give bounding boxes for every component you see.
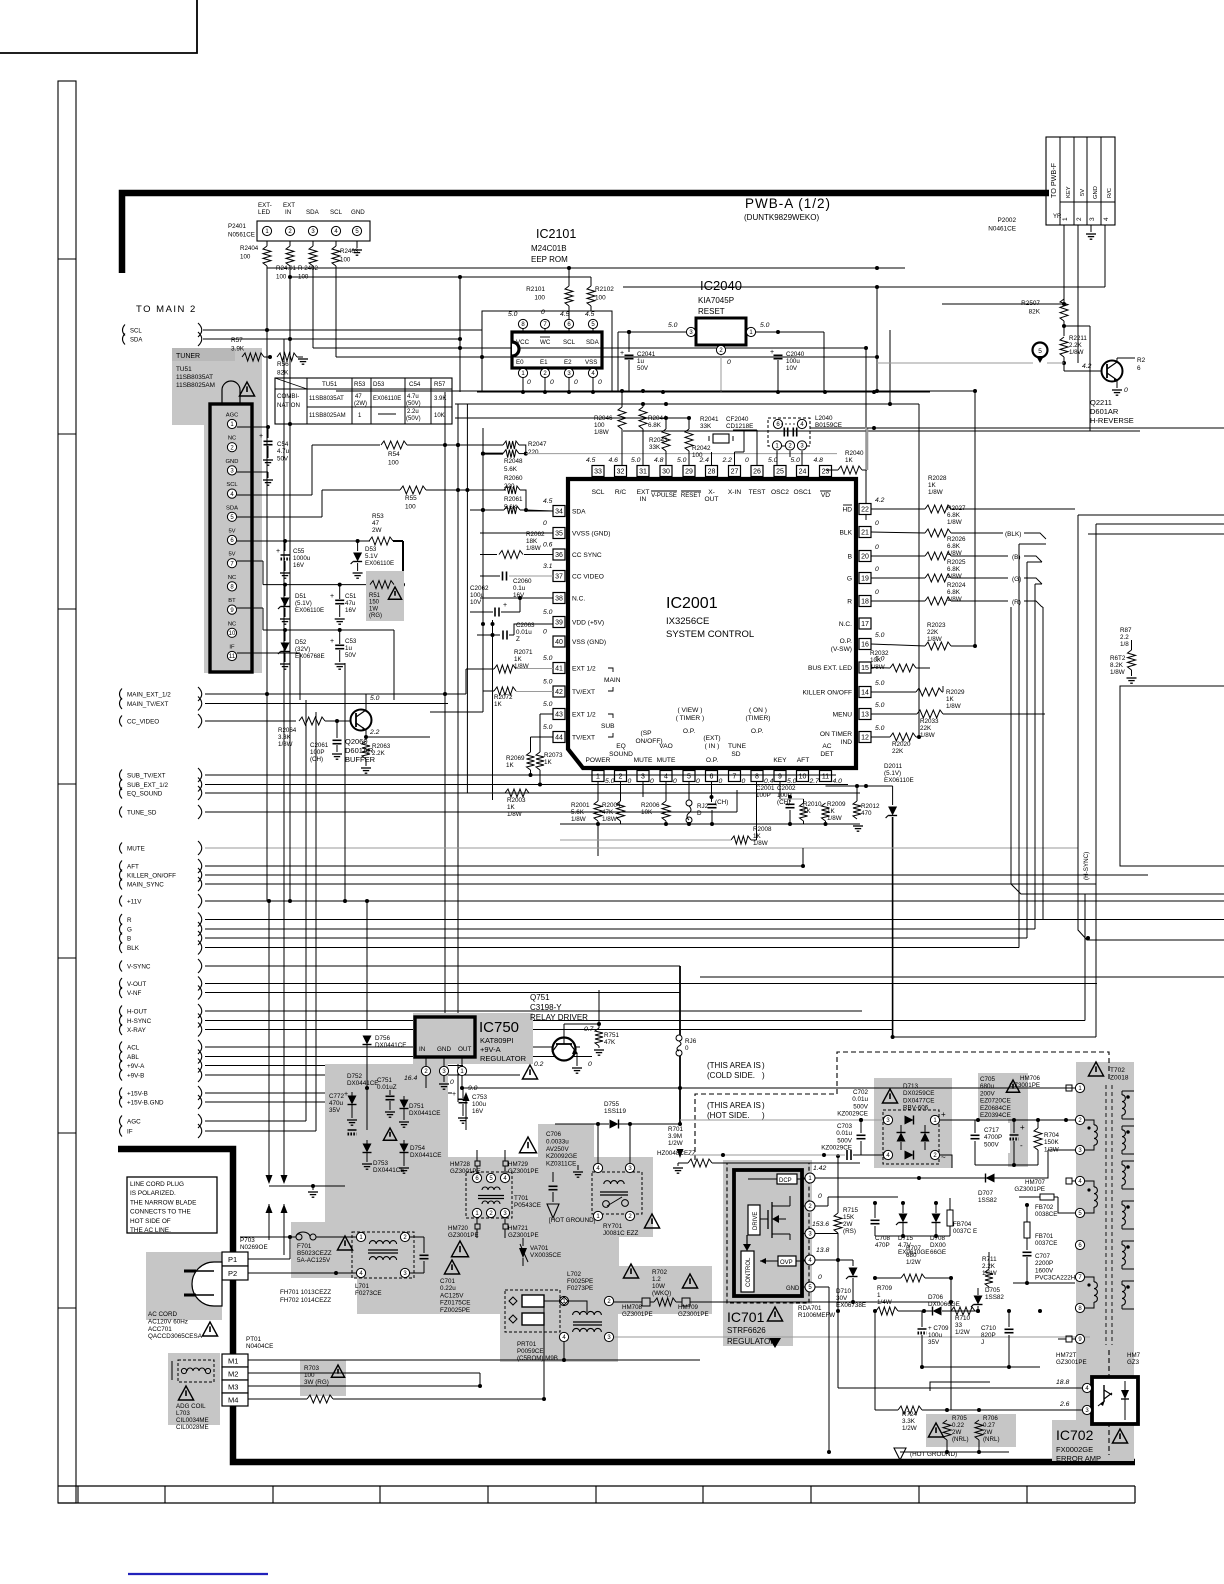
resistor R702 1.2 10W (WKQ) (652, 1269, 698, 1297)
transistor Q2060 D601AR BUFFER (351, 695, 380, 739)
wire SCL bus (203, 328, 482, 332)
svg-text:EQ: EQ (616, 743, 626, 750)
IC2101 top pins 8 7 6 5 (518, 319, 597, 332)
svg-text:ON TIMER: ON TIMER (820, 731, 852, 738)
svg-text:0.4: 0.4 (764, 778, 774, 785)
svg-text:(RG): (RG) (369, 613, 382, 619)
resistor R2047 220 (503, 441, 547, 456)
svg-text:HD: HD (842, 507, 852, 514)
svg-text:CONNECTS TO THE: CONNECTS TO THE (130, 1209, 191, 1216)
svg-text:( IN ): ( IN ) (705, 743, 720, 750)
svg-text:E2: E2 (564, 359, 572, 366)
svg-text:V-SYNC: V-SYNC (127, 963, 151, 970)
svg-text:TO MAIN 2: TO MAIN 2 (136, 304, 197, 315)
svg-text:1/2W: 1/2W (668, 1140, 683, 1147)
jumper RJ6 0 (676, 1035, 697, 1056)
svg-text:100u: 100u (470, 592, 485, 599)
svg-text:[HOT GROUND]: [HOT GROUND] (549, 1217, 596, 1224)
svg-text:TUNER: TUNER (176, 353, 200, 360)
svg-text:0.01u: 0.01u (852, 1096, 868, 1103)
svg-text:10K: 10K (870, 657, 882, 664)
svg-text:28: 28 (708, 469, 716, 476)
svg-text:HM709: HM709 (678, 1304, 699, 1311)
svg-text:150K: 150K (1044, 1139, 1060, 1146)
svg-text:2W: 2W (952, 1429, 961, 1436)
svg-text:MUTE: MUTE (634, 757, 653, 764)
svg-text:11SB8025AM: 11SB8025AM (309, 413, 346, 419)
svg-text:VX0035CE: VX0035CE (530, 1252, 561, 1259)
line cord plug text box (127, 1177, 217, 1234)
svg-text:5.0: 5.0 (631, 457, 641, 464)
svg-text:37: 37 (555, 574, 563, 581)
resistor R707 680 1/2W (873, 1245, 953, 1282)
svg-text:HM72T: HM72T (1056, 1352, 1077, 1359)
svg-text:0.2: 0.2 (534, 1061, 544, 1068)
gray zone C705 (978, 1073, 1028, 1119)
IC701 internals DRIVE block (748, 1205, 760, 1235)
capacitor C2041 1u 50V (620, 330, 656, 392)
resistor R705 0.22 2W (NRL) (943, 1410, 969, 1454)
svg-text:RDA701: RDA701 (798, 1305, 822, 1312)
wire +11V junction to D756 (365, 899, 369, 1030)
svg-text:5.6K: 5.6K (504, 466, 518, 473)
svg-text:100: 100 (405, 504, 416, 511)
svg-text:R54: R54 (388, 451, 400, 458)
svg-text:R2507: R2507 (1021, 300, 1040, 307)
svg-text:100: 100 (276, 273, 287, 280)
svg-text:FH702 1014CEZZ: FH702 1014CEZZ (280, 1297, 331, 1304)
bead FB704 0037CE (947, 1198, 977, 1236)
PWB-A board outline: thick bottom border (118, 1149, 1135, 1462)
zener D53 5.1V EX06110E (351, 541, 395, 578)
svg-text:100u: 100u (786, 358, 800, 365)
svg-text:O.P.: O.P. (706, 757, 719, 764)
svg-text:GZ3001PE: GZ3001PE (1014, 1186, 1045, 1193)
svg-text:MAIN_SYNC: MAIN_SYNC (127, 881, 164, 888)
svg-text:680u: 680u (980, 1083, 995, 1090)
svg-text:V-OUT: V-OUT (127, 981, 146, 988)
svg-text:AC125V: AC125V (440, 1292, 464, 1299)
svg-text:KZ0092GE: KZ0092GE (546, 1153, 577, 1160)
svg-text:43: 43 (555, 712, 563, 719)
svg-text:GZ3001PE: GZ3001PE (622, 1311, 653, 1318)
wire pin2 pin3 jogs (621, 782, 667, 824)
svg-text:M1: M1 (228, 1357, 238, 1366)
wire TUNE_SD up to pin8 (736, 790, 738, 812)
svg-text:EX06110E: EX06110E (884, 777, 914, 784)
svg-text:R2023: R2023 (927, 622, 946, 629)
svg-text:R2029: R2029 (946, 689, 965, 696)
wire IC2001 left pin stubs (480, 511, 553, 598)
svg-text:R2033: R2033 (920, 718, 939, 725)
resistor R2211 2.2K 1/8W (1060, 335, 1087, 365)
svg-text:HZ0048CEZZ: HZ0048CEZZ (657, 1150, 696, 1157)
IC750 label (479, 1019, 527, 1063)
wire bus above IC2001 y418 (455, 416, 691, 420)
connector P1 P2 boxes (222, 1252, 248, 1280)
svg-text:TO PWB-F: TO PWB-F (1049, 162, 1058, 198)
svg-text:1/8W: 1/8W (947, 573, 962, 580)
svg-text:EZ0394CE: EZ0394CE (980, 1112, 1011, 1119)
svg-text:R2101: R2101 (526, 286, 545, 293)
svg-text:5V: 5V (228, 529, 235, 535)
svg-text:LINE CORD PLUG: LINE CORD PLUG (130, 1181, 184, 1188)
svg-text:IF: IF (127, 1128, 133, 1135)
svg-text:16V: 16V (345, 607, 357, 614)
svg-text:DX0441CE: DX0441CE (410, 1152, 442, 1159)
wire rail y1367 (922, 1309, 1042, 1367)
svg-text:1: 1 (1062, 217, 1069, 221)
svg-text:IN: IN (419, 1046, 426, 1053)
svg-text:1/8W: 1/8W (946, 703, 961, 710)
svg-text:100P: 100P (310, 749, 324, 756)
svg-text:R/C: R/C (615, 489, 627, 496)
svg-text:22K: 22K (892, 748, 904, 755)
resistor R2402 100 (298, 241, 319, 348)
svg-text:22: 22 (861, 507, 869, 514)
svg-text:100: 100 (340, 256, 351, 263)
wire nested route 4 box (1088, 533, 1224, 535)
svg-text:(EXT): (EXT) (703, 735, 720, 742)
wire R vertical to stub (1042, 607, 1043, 920)
svg-text:6.8K: 6.8K (947, 543, 961, 550)
svg-text:+: + (276, 548, 280, 555)
svg-text:5A-AC125V: 5A-AC125V (297, 1257, 331, 1264)
svg-text:SCL: SCL (130, 328, 142, 334)
svg-text:): ) (762, 1111, 765, 1120)
svg-text:VSS: VSS (585, 359, 597, 366)
svg-text:GND: GND (226, 459, 239, 465)
wire IC702 pin3 line (930, 1382, 1082, 1410)
relay RY701 J0081C EZZ (592, 1163, 660, 1237)
svg-text:O.P.: O.P. (683, 728, 696, 735)
svg-text:IC701: IC701 (727, 1309, 765, 1325)
svg-text:X-IN: X-IN (728, 489, 741, 496)
svg-text:39: 39 (555, 620, 563, 627)
T702 primary winding 2-3 (1085, 1120, 1097, 1150)
wire vertical bus arrows resume (266, 1204, 288, 1255)
svg-text:VSS (GND): VSS (GND) (572, 639, 606, 646)
svg-text:1/8W: 1/8W (947, 596, 962, 603)
svg-text:D753: D753 (373, 1160, 389, 1167)
gray zone PRT01 label (500, 1290, 618, 1362)
svg-text:1/8W: 1/8W (947, 519, 962, 526)
svg-text:TU51: TU51 (322, 381, 338, 388)
node +15V-B brace and wire (120, 1086, 453, 1100)
svg-text:0: 0 (875, 544, 879, 551)
wire M4 long (543, 1311, 545, 1399)
svg-text:EEP ROM: EEP ROM (531, 255, 568, 264)
svg-text:P2401: P2401 (228, 223, 246, 230)
svg-text:R1006MEFW: R1006MEFW (798, 1312, 835, 1319)
svg-text:QACCD3065CESA: QACCD3065CESA (148, 1333, 203, 1340)
IC2001 right pin squares 22-12 (859, 504, 871, 743)
svg-text:5.0: 5.0 (370, 695, 380, 702)
svg-text:4.7u: 4.7u (407, 394, 419, 400)
wire nested route 2 (1078, 515, 1224, 940)
svg-text:MENU: MENU (833, 712, 853, 719)
svg-text:0: 0 (875, 589, 879, 596)
wire IC701 pin3 right (815, 1233, 838, 1235)
resistor R57 3.9K (205, 337, 272, 361)
HM72x label right (1127, 1352, 1141, 1366)
svg-text:(THIS AREA IS: (THIS AREA IS (707, 1101, 761, 1110)
svg-text:R751: R751 (604, 1032, 620, 1039)
svg-text:IS POLARIZED.: IS POLARIZED. (130, 1190, 176, 1197)
svg-text:CIL0034ME: CIL0034ME (176, 1417, 209, 1424)
svg-text:N0269OE: N0269OE (240, 1244, 268, 1251)
svg-text:47K: 47K (604, 1039, 616, 1046)
svg-text:VCC: VCC (516, 339, 530, 346)
svg-text:KAT809PI: KAT809PI (480, 1036, 514, 1045)
hot/cold dashed boundary (695, 1052, 1109, 1455)
R702 inline HM708 HM709 (614, 1298, 940, 1318)
svg-text:FZ0025PE: FZ0025PE (440, 1307, 470, 1314)
svg-text:AC120V 60Hz: AC120V 60Hz (148, 1318, 188, 1325)
wire vertical bus x269 down lower (266, 899, 273, 1184)
svg-text:SUB_EXT_1/2: SUB_EXT_1/2 (127, 782, 168, 789)
svg-text:470u: 470u (329, 1100, 344, 1107)
wire nested route 3 (893, 524, 1224, 1037)
svg-text:47: 47 (355, 394, 362, 400)
svg-text:(WKQ): (WKQ) (652, 1290, 671, 1297)
svg-text:STRF6626: STRF6626 (727, 1326, 766, 1335)
IC701 STRF6626 body (734, 1170, 802, 1296)
svg-text:200V: 200V (980, 1090, 996, 1097)
resistor R2064 3.3K 1/8W (278, 717, 351, 748)
wire IC2101 bottom rail (477, 390, 930, 394)
page frame: blue underline mark bottom left (128, 1573, 268, 1575)
svg-text:100: 100 (594, 422, 605, 429)
resistor R2008 1K 1/8W (560, 782, 772, 847)
diode D707 1SS82 (919, 1170, 1019, 1204)
node MAIN_EXT_1/2 brace and wire (120, 687, 467, 701)
svg-text:BUFFER: BUFFER (345, 755, 376, 764)
wire AGC vertical (305, 700, 307, 1121)
svg-text:38: 38 (555, 596, 563, 603)
svg-text:EZ0684CE: EZ0684CE (980, 1105, 1011, 1112)
svg-text:10V: 10V (470, 599, 482, 606)
svg-text:1K: 1K (845, 457, 854, 464)
wire pin11 ACDET to D2011 (826, 782, 893, 791)
svg-text:R2: R2 (1137, 357, 1146, 364)
hot ground label (549, 1217, 596, 1224)
svg-text:TUNE: TUNE (728, 743, 747, 750)
wire box around IC2101 (482, 311, 612, 392)
wire Q2060 collector net (366, 694, 540, 703)
wire BLK vertical to stub (1019, 544, 1046, 948)
resistor R706 0.27 2W (NRL) (975, 1410, 1000, 1454)
svg-text:0: 0 (574, 379, 578, 386)
svg-text:1/8W: 1/8W (1110, 669, 1125, 676)
IC2001 left pin labels (572, 509, 621, 742)
warning R705 (928, 1423, 943, 1437)
svg-text:0: 0 (745, 457, 749, 464)
FH701 FH702 label (280, 1289, 331, 1304)
svg-text:TEST: TEST (749, 489, 766, 496)
capacitor C751 0.01uZ (377, 1077, 397, 1117)
IC750 pins 2 3 1 (421, 1057, 466, 1090)
svg-text:R2102: R2102 (595, 286, 614, 293)
svg-text:R715: R715 (843, 1207, 859, 1214)
svg-text:33K: 33K (700, 423, 712, 430)
svg-text:OSC1: OSC1 (794, 489, 812, 496)
resistor R704 150K 1/2W (975, 1120, 1060, 1167)
wire pin3 R704 net (1019, 1120, 1075, 1178)
svg-text:GZ3001PE: GZ3001PE (678, 1311, 709, 1318)
node TUNE_SD brace and wire (120, 805, 738, 819)
svg-text:34: 34 (555, 509, 563, 516)
svg-text:F0273PE: F0273PE (567, 1285, 593, 1292)
svg-text:L2040: L2040 (815, 415, 833, 422)
resistor R56 82K (277, 353, 308, 377)
svg-text:29: 29 (685, 469, 693, 476)
svg-text:R703: R703 (304, 1365, 320, 1372)
svg-text:0038CE: 0038CE (1035, 1211, 1057, 1218)
svg-text:X-RAY: X-RAY (127, 1027, 147, 1034)
IC2001 bottom pin labels (586, 707, 834, 764)
svg-text:5V: 5V (228, 552, 235, 558)
ferrite bead HM728 GZ3001PE (450, 1150, 481, 1175)
capacitor C701 0.22u AC125V FZ0175CE FZ0025PE (410, 1237, 470, 1314)
svg-text:ERROR AMP: ERROR AMP (1056, 1454, 1101, 1463)
svg-text:100: 100 (388, 460, 399, 467)
ground IC750 GND (439, 1084, 449, 1089)
svg-text:25: 25 (776, 469, 784, 476)
svg-text:L701: L701 (355, 1283, 370, 1290)
capacitor C772 470u 35V (329, 1091, 357, 1134)
wire long y421 from IC2040 (795, 364, 870, 366)
svg-text:1/8W: 1/8W (1069, 349, 1084, 356)
svg-text:BUS EXT. LED: BUS EXT. LED (808, 665, 852, 672)
svg-text:3.3K: 3.3K (902, 1418, 916, 1425)
svg-text:0.6: 0.6 (543, 542, 553, 549)
node +15V-B.GND brace and wire (120, 1095, 431, 1109)
svg-text:C3198-Y: C3198-Y (530, 1003, 562, 1012)
resistor R2041 33K and filter CF2040 CD1218E (700, 416, 757, 465)
wire tuner 5V pin6 rail (237, 539, 370, 543)
svg-text:4.6: 4.6 (609, 457, 619, 464)
svg-text:220: 220 (528, 449, 539, 456)
svg-text:R2063: R2063 (372, 743, 391, 750)
svg-text:R55: R55 (405, 495, 417, 502)
wire EXT bus 1 (313, 346, 868, 520)
svg-text:1u: 1u (637, 358, 644, 365)
svg-text:THE NARROW BLADE: THE NARROW BLADE (130, 1199, 196, 1206)
svg-text:35V: 35V (329, 1107, 341, 1114)
svg-text:66GE: 66GE (930, 1249, 946, 1256)
svg-text:AGC: AGC (127, 1118, 141, 1125)
svg-text:E1: E1 (540, 359, 548, 366)
wire Q2060 emitter to bus (366, 712, 430, 737)
svg-text:P1: P1 (228, 1255, 237, 1264)
warning triangle near D754 right (519, 1137, 536, 1153)
svg-text:5.0: 5.0 (768, 457, 778, 464)
svg-text:2W: 2W (843, 1221, 853, 1228)
IC750 warning (522, 1065, 537, 1079)
svg-text:1/8W: 1/8W (594, 429, 609, 436)
svg-text:C706: C706 (546, 1131, 562, 1138)
svg-text:GZ3001PE: GZ3001PE (1056, 1359, 1087, 1366)
diode D755 1SS119 (555, 1060, 680, 1129)
junction dot right bus (1086, 936, 1090, 940)
wire T702 pin2 net (1045, 1088, 1066, 1120)
node CC_VIDEO brace and wire (120, 714, 206, 728)
svg-text:6.8K: 6.8K (947, 589, 961, 596)
svg-text:R2041: R2041 (700, 416, 719, 423)
svg-text:M24C01B: M24C01B (531, 244, 567, 253)
svg-text:O.P.: O.P. (751, 728, 764, 735)
zener D710 30V EX06738E (836, 1268, 875, 1310)
svg-text:(50V): (50V) (406, 416, 421, 422)
svg-text:R702: R702 (652, 1269, 668, 1276)
T702 secondary windings (1122, 1091, 1134, 1309)
capacitor C2061 100P (CH) (310, 721, 342, 763)
svg-text:0: 0 (628, 778, 632, 785)
svg-text:KILLER_ON/OFF: KILLER_ON/OFF (127, 872, 176, 879)
svg-text:F0025PE: F0025PE (567, 1278, 593, 1285)
svg-text:21: 21 (861, 530, 869, 537)
svg-text:IC2101: IC2101 (536, 227, 576, 241)
svg-text:D707: D707 (978, 1190, 994, 1197)
wire vertical bus x267 down (265, 330, 269, 901)
wire pin5 FB702 (1058, 1197, 1075, 1213)
svg-text:C753: C753 (472, 1094, 488, 1101)
svg-text:GZ3001PE: GZ3001PE (508, 1232, 539, 1239)
resistor R2046 100 1/8W (594, 391, 626, 465)
svg-text:(NRL): (NRL) (983, 1436, 1000, 1443)
resistor R2043 33K (649, 420, 670, 465)
svg-text:TUNE_SD: TUNE_SD (127, 809, 157, 816)
wire B vertical to stub (1027, 562, 1042, 938)
gray zone R703 (300, 1360, 346, 1396)
wire pin9 KEY down (779, 799, 781, 824)
connector M1-M4 boxes (222, 1354, 248, 1406)
svg-text:FZ0175CE: FZ0175CE (440, 1300, 470, 1307)
svg-text:R709: R709 (877, 1285, 893, 1292)
svg-text:C2041: C2041 (637, 351, 656, 358)
svg-text:R2048: R2048 (504, 458, 523, 465)
svg-text:AV250V: AV250V (546, 1146, 569, 1153)
svg-text:16V: 16V (472, 1108, 484, 1115)
svg-text:1/8W: 1/8W (753, 840, 768, 847)
capacitor C53 1u 50V (330, 630, 357, 669)
svg-text:): ) (762, 1061, 765, 1070)
svg-text:5.0: 5.0 (543, 724, 553, 731)
svg-text:22K: 22K (920, 725, 932, 732)
diode D753 DX0441CE (362, 1140, 405, 1174)
IC2001 right pin voltages (875, 497, 885, 732)
svg-text:VD: VD (821, 492, 830, 499)
ferrite bead HM706 GZ3001PE (1009, 1075, 1075, 1120)
resistor RT51 47K (594, 990, 620, 1055)
IC2040 pin 2 (716, 345, 731, 392)
svg-text:(COLD SIDE.: (COLD SIDE. (707, 1071, 755, 1080)
transformer T702 Z0018 label (1088, 1062, 1128, 1082)
svg-text:0: 0 (875, 566, 879, 573)
svg-text:C707: C707 (1035, 1253, 1051, 1260)
svg-text:47: 47 (372, 520, 380, 527)
IC701 internals arrow drive-control (743, 1235, 754, 1251)
svg-text:0: 0 (1124, 387, 1128, 394)
gray zone C706 label (538, 1124, 594, 1172)
svg-text:T702: T702 (1110, 1067, 1125, 1074)
svg-text:2.2: 2.2 (722, 457, 733, 464)
IC2001 IX3256CE SYSTEM CONTROL body (568, 479, 856, 768)
svg-text:J0081C EZZ: J0081C EZZ (603, 1230, 638, 1237)
wire G vertical to stub (1035, 584, 1042, 929)
gray zone IC702 label (1052, 1420, 1134, 1461)
